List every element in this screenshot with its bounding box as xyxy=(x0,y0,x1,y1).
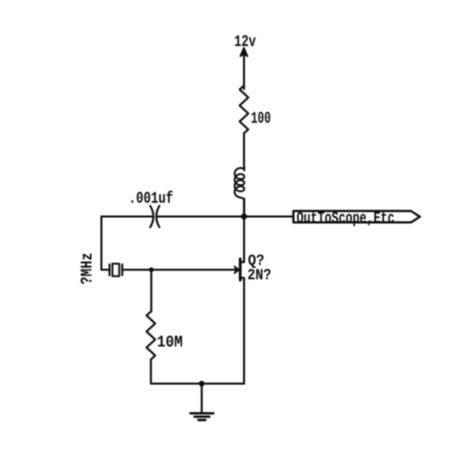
label 10M xyxy=(158,336,182,347)
wire xyxy=(151,360,244,384)
label Q? xyxy=(248,254,263,268)
label 12v xyxy=(235,35,256,46)
resistor R1 100 xyxy=(240,86,249,134)
inductor L1 xyxy=(235,167,245,217)
label .001uf xyxy=(131,191,172,203)
node G dot xyxy=(199,381,205,387)
resistor R2 10M xyxy=(147,312,156,360)
label OutToScope,Etc xyxy=(297,212,394,226)
node B dot xyxy=(149,267,154,272)
node A dot xyxy=(241,214,247,220)
wire xyxy=(122,269,236,271)
crystal Y1 xyxy=(109,264,111,275)
wire xyxy=(243,199,245,217)
capacitor C1 .001uf xyxy=(150,206,153,227)
ground stem xyxy=(201,384,203,413)
gate arrow xyxy=(234,266,239,273)
wire xyxy=(150,270,152,312)
wire xyxy=(244,216,292,218)
label 2N? xyxy=(248,269,270,279)
wire xyxy=(101,216,152,218)
transistor Q1 xyxy=(239,259,242,280)
output flag box xyxy=(293,211,420,222)
wire xyxy=(243,133,245,166)
wire xyxy=(158,216,244,218)
wire xyxy=(101,217,109,270)
label 100 xyxy=(252,112,271,123)
ground bars xyxy=(190,412,213,414)
label ?MHz xyxy=(81,254,92,285)
power 12v arrow xyxy=(243,51,245,89)
